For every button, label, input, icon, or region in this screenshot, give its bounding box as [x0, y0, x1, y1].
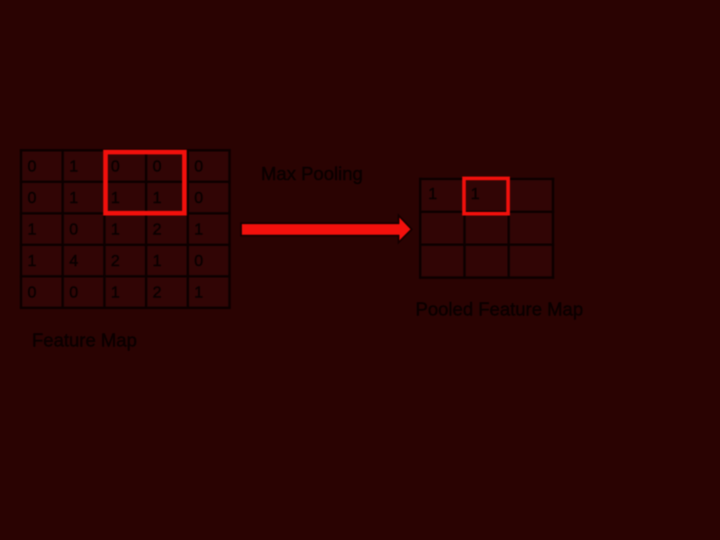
svg-text:0: 0 [28, 285, 37, 302]
pooled feature map grid lines [419, 178, 554, 279]
svg-text:Max Pooling: Max Pooling [261, 163, 363, 184]
svg-text:1: 1 [428, 186, 437, 203]
svg-text:1: 1 [69, 159, 78, 176]
feature map grid fill [21, 150, 230, 307]
feature map grid lines [20, 149, 231, 309]
svg-text:0: 0 [28, 159, 37, 176]
svg-text:1: 1 [111, 222, 120, 239]
svg-text:2: 2 [153, 285, 162, 302]
svg-text:0: 0 [28, 190, 37, 207]
svg-text:0: 0 [194, 190, 203, 207]
svg-text:1: 1 [69, 190, 78, 207]
svg-text:0: 0 [194, 159, 203, 176]
svg-text:1: 1 [153, 253, 162, 270]
svg-text:0: 0 [111, 159, 120, 176]
svg-text:0: 0 [69, 285, 78, 302]
svg-text:1: 1 [471, 186, 480, 203]
svg-text:1: 1 [194, 285, 203, 302]
svg-text:1: 1 [194, 222, 203, 239]
svg-text:1: 1 [111, 190, 120, 207]
red highlight rectangle on feature map [106, 152, 185, 213]
svg-text:Feature Map: Feature Map [32, 330, 137, 351]
svg-text:0: 0 [194, 253, 203, 270]
svg-text:1: 1 [111, 285, 120, 302]
svg-text:Pooled Feature Map: Pooled Feature Map [416, 299, 584, 320]
pooled feature map digits [428, 186, 480, 203]
svg-text:2: 2 [111, 253, 120, 270]
svg-text:1: 1 [153, 190, 162, 207]
red highlight rectangle on pooled feature map [464, 178, 508, 213]
svg-text:0: 0 [69, 222, 78, 239]
svg-text:1: 1 [28, 253, 37, 270]
feature map digits [28, 159, 204, 302]
svg-text:1: 1 [28, 222, 37, 239]
svg-text:0: 0 [153, 159, 162, 176]
pooled feature map grid fill [420, 179, 553, 278]
red arrow [241, 215, 412, 242]
svg-text:2: 2 [153, 222, 162, 239]
svg-text:4: 4 [69, 253, 78, 270]
